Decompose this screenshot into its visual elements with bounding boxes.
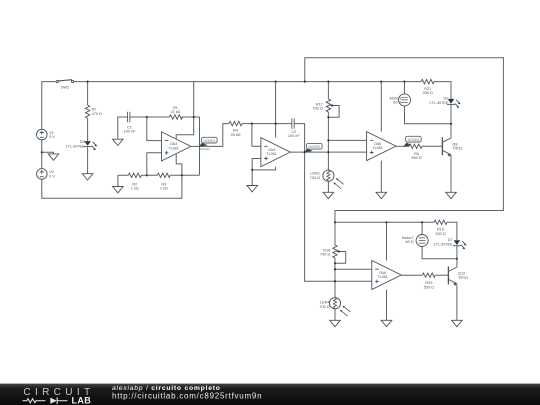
resistor R3 bbox=[157, 173, 170, 191]
ground (Q8) bbox=[446, 192, 457, 198]
svg-text:22 kΩ: 22 kΩ bbox=[170, 110, 180, 114]
wire OA8 V- to ground bbox=[386, 290, 388, 321]
ground (LDR4) bbox=[330, 320, 341, 326]
wire R7 branch top bbox=[87, 82, 89, 106]
wire C2 right to OA4 output bbox=[294, 124, 305, 153]
ground (LDR1) bbox=[323, 192, 334, 198]
svg-text:330 Ω: 330 Ω bbox=[435, 232, 445, 236]
wire positive rail segment A bbox=[73, 81, 421, 83]
ground (OA8) bbox=[381, 320, 392, 326]
transistor Q12 bbox=[448, 266, 468, 285]
wire lower rail after R19 to D7 bbox=[447, 222, 457, 240]
resistor R1 bbox=[170, 106, 183, 119]
op-amp OA6 bbox=[367, 132, 396, 161]
svg-text:60 Ω: 60 Ω bbox=[405, 240, 413, 244]
svg-text:26 kΩ: 26 kΩ bbox=[230, 133, 240, 137]
wire OA8 V+ from lower rail bbox=[386, 222, 388, 260]
svg-text:1 kΩ: 1 kΩ bbox=[131, 187, 139, 191]
svg-text:700 Ω: 700 Ω bbox=[319, 305, 329, 309]
LED D2 bbox=[429, 97, 460, 108]
resistor R2 bbox=[128, 173, 141, 191]
wire OA8 minus line bbox=[335, 268, 372, 270]
wire Q8 collector up bbox=[450, 124, 452, 138]
motor Motor1 bbox=[390, 94, 411, 106]
wire outer supply loop bbox=[305, 58, 504, 223]
wire C1 to R1 and OA3 minus column bbox=[130, 117, 170, 141]
wire V2 to bottom rail to OA3 feedback node bbox=[42, 175, 182, 198]
wire Q12 emitter to ground bbox=[456, 284, 458, 320]
op-amp OA8 bbox=[372, 261, 401, 290]
wire rail after R21 to D2 bbox=[434, 82, 451, 99]
svg-text:LAB: LAB bbox=[71, 395, 91, 405]
svg-text:NODE6: NODE6 bbox=[408, 138, 420, 142]
svg-text:http://circuitlab.com/c8925rtf: http://circuitlab.com/c8925rtfvum9n bbox=[112, 392, 262, 401]
svg-text:D7: D7 bbox=[448, 238, 453, 242]
wire R20 to Q12 base bbox=[435, 274, 448, 276]
wire left loop from SW2 to V1 bbox=[42, 82, 57, 130]
wire Q8 emitter to ground bbox=[450, 155, 452, 193]
wire OA3 output bbox=[191, 145, 200, 147]
node flag NODE6 bbox=[404, 136, 421, 146]
wire V1 to V2 bbox=[41, 140, 43, 169]
wire R4 to C2 bbox=[242, 123, 292, 125]
wire OA4 output down to OA8 plus bbox=[305, 152, 372, 281]
transistor Q8 bbox=[442, 137, 462, 156]
ground (C1) bbox=[113, 139, 124, 145]
switch SW2 bbox=[56, 80, 73, 90]
wire R2 to R3 bbox=[141, 174, 157, 176]
motor Motor2 bbox=[402, 235, 428, 247]
ground (OA4) bbox=[247, 186, 258, 192]
node flag NODE5 bbox=[305, 143, 323, 152]
resistor R20 bbox=[422, 273, 435, 289]
svg-text:Q12: Q12 bbox=[458, 272, 465, 276]
photoresistor LDR1 bbox=[310, 170, 344, 189]
svg-text:1 kΩ: 1 kΩ bbox=[160, 187, 168, 191]
wire R18 top from lower rail bbox=[334, 222, 336, 245]
resistor R21 bbox=[421, 79, 434, 95]
wire lower rail segment A bbox=[335, 221, 434, 223]
node flag NODE4 bbox=[199, 137, 217, 151]
svg-text:550 Ω: 550 Ω bbox=[424, 285, 434, 289]
svg-text:700 Ω: 700 Ω bbox=[320, 253, 330, 257]
voltage source V2 bbox=[37, 169, 56, 180]
resistor R19 bbox=[434, 220, 447, 236]
capacitor C2 bbox=[288, 118, 301, 138]
wire rail drop to OA3 V+ pin bbox=[176, 82, 194, 140]
svg-text:330 Ω: 330 Ω bbox=[423, 91, 433, 95]
svg-text:NODE5: NODE5 bbox=[309, 145, 321, 149]
wire OA6 minus line bbox=[328, 139, 366, 141]
wire Q12 collector up bbox=[456, 259, 458, 267]
wire R17 top from rail bbox=[327, 82, 329, 99]
svg-text:60 Ω: 60 Ω bbox=[393, 101, 401, 105]
svg-text:NODE4: NODE4 bbox=[204, 139, 216, 143]
wire D2 to collector junction bbox=[450, 104, 452, 123]
LED D7 bbox=[434, 238, 467, 249]
svg-text:9 V: 9 V bbox=[49, 175, 55, 179]
wire C1 ground lead bbox=[118, 117, 128, 139]
svg-text:TIP31: TIP31 bbox=[458, 276, 468, 280]
wire OA6 V+ from rail bbox=[380, 82, 382, 132]
wire OA3 V- pin jog bbox=[176, 154, 182, 176]
svg-text:700 Ω: 700 Ω bbox=[310, 176, 320, 180]
svg-text:TL081: TL081 bbox=[372, 146, 382, 150]
wire LDR1 to ground bbox=[327, 181, 329, 192]
svg-text:LTL-307EE: LTL-307EE bbox=[434, 243, 453, 247]
svg-text:TIP31: TIP31 bbox=[452, 147, 462, 151]
wire OA3 plus input column bbox=[147, 153, 162, 176]
ground (mid-supply) bbox=[48, 154, 59, 160]
wire Motor2 branch bbox=[422, 222, 457, 258]
voltage source V1 bbox=[37, 129, 56, 140]
wire R18 to LDR4 and OA8 minus bbox=[334, 258, 336, 298]
ground (D3) bbox=[82, 174, 93, 180]
wire R17 to LDR1 and OA6 minus bbox=[327, 112, 329, 170]
wire R1 right to output column bbox=[181, 116, 199, 118]
wire Motor1 loop bbox=[405, 82, 452, 124]
resistor R6 bbox=[409, 144, 422, 160]
wire mid-supply ground branch bbox=[42, 152, 54, 154]
wire D7 to junction bbox=[456, 246, 458, 259]
wire R4 junction to OA4 minus bbox=[252, 124, 261, 147]
wire NODE4 to R4 bbox=[200, 124, 230, 147]
wire R17 wiper loop bbox=[328, 106, 339, 118]
wire R2 ground lead bbox=[118, 175, 128, 186]
svg-text:TL081: TL081 bbox=[377, 275, 387, 279]
svg-text:550 Ω: 550 Ω bbox=[411, 156, 421, 160]
wire R18 wiper loop bbox=[335, 252, 346, 264]
potentiometer R18 bbox=[320, 245, 343, 258]
svg-text:9 V: 9 V bbox=[49, 135, 55, 139]
svg-text:LTL-307EE: LTL-307EE bbox=[66, 144, 85, 148]
svg-text:700 Ω: 700 Ω bbox=[313, 107, 323, 111]
wire R3 right to junction bbox=[170, 174, 199, 176]
resistor R7 bbox=[85, 105, 102, 118]
photoresistor LDR4 bbox=[319, 298, 350, 317]
ground (OA6) bbox=[376, 192, 387, 198]
wire LDR4 to ground bbox=[334, 309, 336, 321]
op-amp OA4 bbox=[261, 138, 290, 167]
wire D3 to ground bbox=[87, 147, 89, 174]
svg-text:Q8: Q8 bbox=[452, 142, 457, 146]
svg-text:TL081: TL081 bbox=[266, 152, 276, 156]
wire R7 to D3 bbox=[87, 118, 89, 141]
svg-text:LTL-307EE: LTL-307EE bbox=[429, 101, 448, 105]
svg-text:TL081: TL081 bbox=[168, 147, 178, 151]
svg-text:470 Ω: 470 Ω bbox=[92, 112, 102, 116]
ground (Q12) bbox=[452, 320, 463, 326]
op-amp OA3 bbox=[162, 132, 191, 161]
wire OA4 plus to ground column bbox=[252, 159, 275, 186]
capacitor C1 bbox=[124, 112, 137, 134]
wire OA3 output column bbox=[199, 117, 201, 175]
resistor R4 bbox=[229, 121, 242, 136]
wire OA8 output to R20 bbox=[401, 274, 422, 276]
svg-text:100 nF: 100 nF bbox=[124, 130, 137, 134]
svg-text:SW2: SW2 bbox=[61, 85, 69, 89]
wire OA4 output to OA6 plus bbox=[290, 151, 366, 153]
wire rail drop to OA4 V+ bbox=[275, 82, 277, 138]
svg-text:NODE4: NODE4 bbox=[200, 147, 210, 151]
CircuitLab logo resistor-diode glyph bbox=[23, 397, 68, 404]
ground (R2) bbox=[113, 187, 124, 193]
LED D3 bbox=[66, 140, 98, 150]
svg-text:100 nF: 100 nF bbox=[288, 134, 301, 138]
wire OA6 V- to ground bbox=[380, 161, 382, 193]
wire OA6 output to R6 bbox=[396, 145, 409, 147]
wire R6 to Q8 base bbox=[422, 145, 442, 147]
potentiometer R17 bbox=[313, 99, 337, 112]
